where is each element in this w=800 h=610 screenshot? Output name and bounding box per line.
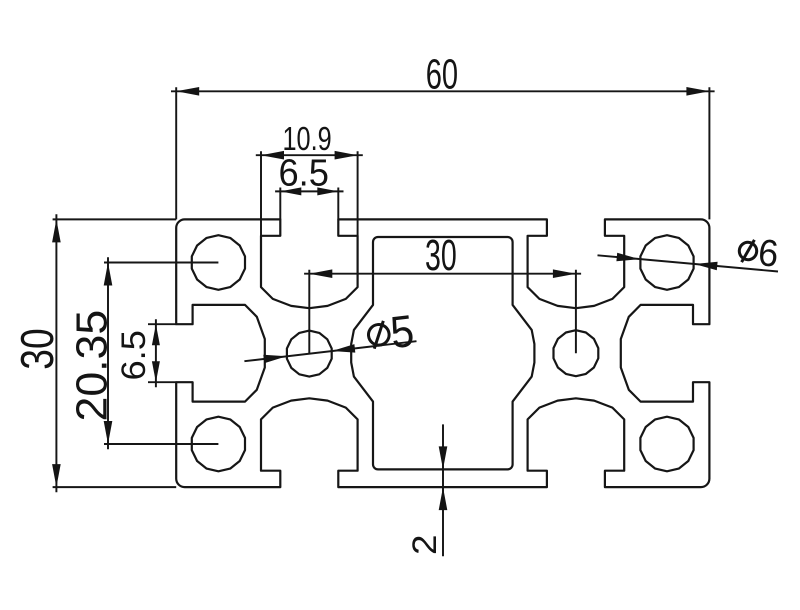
dimension 2 arrows (439, 446, 448, 469)
svg-text:6.5: 6.5 (279, 151, 329, 194)
dimension 60 line (171, 90, 715, 92)
dimension 2 line (442, 424, 444, 556)
dimension 6.5 left arrows (152, 324, 160, 345)
svg-text:6: 6 (756, 231, 780, 275)
diameter 5 leader line (244, 341, 416, 361)
dimension 30 middle line (304, 273, 581, 275)
diameter 6 leader line (598, 255, 779, 271)
dimension 30 middle arrows (309, 269, 332, 278)
diameter 5 symbol (367, 320, 391, 349)
dimension 60 arrows (176, 87, 199, 96)
dimension 6.5 top extension lines (280, 188, 338, 220)
dimension 6.5 left extension lines (148, 324, 176, 382)
svg-text:2: 2 (405, 535, 444, 555)
dimension 6.5 left line (155, 319, 157, 387)
dimension 10.9 line (256, 154, 363, 156)
dimension 20.35 extension lines (104, 263, 218, 445)
dimension 30 left arrows (52, 219, 61, 242)
dimension 60 extension lines (176, 87, 709, 219)
center bore hole left (diam 5) (287, 331, 332, 377)
corner bore hole top-left (diam 6) (192, 235, 245, 290)
svg-text:6.5: 6.5 (115, 330, 153, 380)
dimension 10.9 arrows (261, 151, 284, 160)
dimension 20.35 line (107, 257, 109, 449)
svg-text:20.35: 20.35 (68, 310, 116, 422)
dimension 10.9 extension lines (261, 151, 358, 236)
dimension 6.5 top line (275, 190, 343, 192)
dimension 30 left extension lines (53, 219, 177, 487)
svg-text:30: 30 (11, 328, 63, 369)
center bore hole right (diam 5) (554, 330, 599, 376)
diameter 5 arrows (263, 355, 286, 364)
diameter 6 symbol (738, 239, 757, 264)
dimension 20.35 arrows (104, 263, 113, 286)
diameter 6 arrows (616, 253, 639, 261)
dimension 30 middle extension lines to hole centers (309, 270, 576, 354)
profile outer outline with T-slots (176, 219, 709, 487)
corner bore hole bottom-left (diam 6) (192, 417, 245, 472)
dimension 30 left line (55, 214, 57, 492)
dimension 6.5 top arrows (280, 187, 301, 195)
central core cavity (351, 237, 534, 469)
corner bore hole top-right (diam 6) (640, 235, 693, 290)
svg-text:30: 30 (425, 231, 457, 279)
corner bore hole bottom-right (diam 6) (640, 417, 693, 472)
svg-text:60: 60 (426, 50, 458, 98)
